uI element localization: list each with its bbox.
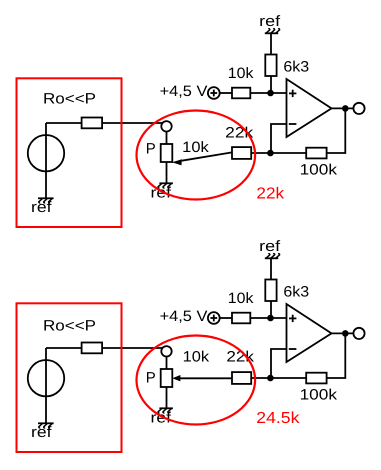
wire source to R10k [220,92,232,94]
source terminal +4,5V (circle with plus, circuit 1) [208,87,220,99]
terminal pot top (open circle, circuit 1) [161,121,171,131]
svg-text:10k: 10k [182,139,209,156]
wire source to R10k [220,317,232,319]
wire op-amp minus input to feedback node [271,349,287,378]
svg-text:22k: 22k [225,125,254,142]
wire feed to pot top terminal [102,347,163,349]
svg-text:6k3: 6k3 [283,284,309,301]
wire source top horizontal [46,122,82,124]
resistor Ro (source output resistance, circuit 1) [82,118,103,129]
svg-text:P: P [146,370,156,387]
svg-text:ref: ref [259,238,281,255]
wire op-amp output [332,332,354,334]
terminal output (open circle, circuit 2) [353,328,364,339]
resistor 22k (circuit 2) [232,372,251,384]
junction plus-input node (circuit 1) [267,90,274,97]
svg-text:22k: 22k [256,185,285,202]
resistor 100k feedback (circuit 2) [306,373,326,384]
resistor 6k3 (bias, circuit 1) [265,55,276,77]
annotation red box Ro<<P (circuit 2) [17,303,122,452]
svg-text:P: P [146,140,156,157]
wire 6k3 bottom to plus node [270,76,272,93]
resistor 100k feedback (circuit 1) [306,148,326,159]
wire ref to 6k3 top [270,258,272,279]
svg-text:24.5k: 24.5k [256,410,300,427]
svg-text:10k: 10k [183,349,210,366]
source (circle symbol, circuit 2) [28,360,64,396]
wire wiper (diagonal) circuit 1 [182,152,232,160]
source (circle symbol, circuit 1) [28,135,64,171]
wiper arrow (circuit 2) [172,375,180,381]
annotation red box Ro<<P (circuit 1) [17,78,122,227]
ground ref (source, circuit 2) [38,423,54,428]
wire 100k to feedback node [251,152,306,154]
svg-text:10k: 10k [228,65,254,82]
ground ref (source, circuit 1) [38,198,54,203]
wire feed to pot top terminal [102,122,163,124]
annotation red ellipse (pot + 22k, circuit 1) [137,111,256,200]
wire pot terminal to pot body [166,132,168,145]
wire 6k3 bottom to plus node [270,301,272,318]
svg-text:Ro<<P: Ro<<P [43,318,96,335]
op-amp U1 [287,79,332,137]
svg-text:100k: 100k [300,386,338,403]
svg-text:ref: ref [31,424,52,441]
wire op-amp output [332,107,354,109]
wire R10k to op-amp plus input [250,317,286,319]
junction output node (circuit 1) [342,105,349,112]
svg-text:+4,5 V: +4,5 V [160,83,208,100]
wire R10k to op-amp plus input [250,92,286,94]
ground ref (below pot, circuit 2) [158,408,173,413]
wire op-amp minus input to feedback node [271,124,287,153]
svg-text:+4,5 V: +4,5 V [160,308,208,325]
op-amp U2 [287,304,332,362]
wiper arrow (circuit 1) [172,159,182,165]
resistor 10k series (circuit 2) [232,313,250,324]
wire source vertical [45,123,47,198]
junction feedback node (circuit 2) [267,375,274,382]
terminal pot top (open circle, circuit 2) [161,346,171,356]
source terminal +4,5V (circle with plus, circuit 2) [208,312,220,324]
svg-text:100k: 100k [300,161,338,178]
junction feedback node (circuit 1) [267,150,274,157]
ground ref (above R-6k3, circuit 2) [265,254,280,259]
ground ref (below pot, circuit 1) [158,183,173,188]
wire ref to 6k3 top [270,33,272,54]
resistor 6k3 (bias, circuit 2) [265,280,276,302]
wire 100k to feedback node [251,377,306,379]
wire wiper (horizontal) circuit 2 [180,377,233,379]
wire pot bottom to ground [166,387,168,408]
ground ref (above R-6k3, circuit 1) [265,29,280,34]
wire source vertical [45,348,47,423]
svg-text:ref: ref [31,199,52,216]
resistor Ro (source output resistance, circuit 2) [82,343,103,354]
resistor 10k series (circuit 1) [232,88,250,99]
resistor 22k (circuit 1) [232,147,251,159]
svg-text:6k3: 6k3 [283,59,309,76]
svg-text:Ro<<P: Ro<<P [43,91,96,108]
junction plus-input node (circuit 2) [267,315,274,322]
wire feedback vertical [327,108,346,153]
wire pot terminal to pot body [166,357,168,370]
potentiometer P body (circuit 1) [161,144,173,162]
potentiometer P body (circuit 2) [161,369,173,387]
svg-text:10k: 10k [228,290,254,307]
terminal output (open circle, circuit 1) [353,103,364,114]
wire feedback vertical [327,333,346,378]
svg-text:ref: ref [259,13,281,30]
annotation red ellipse (pot + 22k, circuit 2) [137,336,256,425]
junction output node (circuit 2) [342,330,349,337]
wire pot bottom to ground [166,162,168,183]
wire source top horizontal [46,347,82,349]
